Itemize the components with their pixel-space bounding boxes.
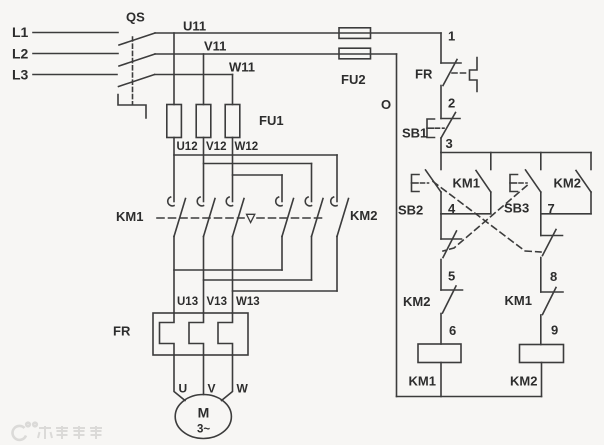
svg-text:KM2: KM2	[403, 294, 430, 309]
svg-text:M: M	[198, 405, 210, 421]
svg-text:SB3: SB3	[504, 201, 529, 216]
svg-text:FR: FR	[415, 67, 433, 82]
svg-text:3~: 3~	[197, 424, 210, 436]
svg-text:O: O	[381, 97, 391, 112]
svg-text:V: V	[208, 382, 216, 396]
svg-text:6: 6	[449, 323, 456, 338]
svg-text:FR: FR	[113, 324, 131, 339]
svg-text:4: 4	[448, 201, 456, 216]
svg-text:W: W	[237, 382, 249, 396]
svg-text:1: 1	[448, 29, 455, 44]
svg-text:W11: W11	[229, 60, 255, 75]
svg-text:KM2: KM2	[554, 176, 581, 191]
svg-text:3: 3	[446, 136, 453, 151]
svg-text:QS: QS	[126, 10, 145, 25]
svg-text:FU1: FU1	[259, 113, 284, 128]
svg-text:2: 2	[448, 96, 455, 111]
svg-text:U11: U11	[183, 19, 206, 34]
svg-text:SB1: SB1	[402, 126, 427, 141]
svg-text:5: 5	[448, 269, 455, 284]
svg-text:L2: L2	[12, 46, 29, 62]
svg-text:7: 7	[548, 201, 555, 216]
svg-text:SB2: SB2	[398, 203, 423, 218]
svg-text:KM1: KM1	[116, 209, 143, 224]
svg-text:L1: L1	[12, 24, 29, 40]
svg-text:V12: V12	[206, 141, 226, 153]
svg-text:L3: L3	[12, 67, 29, 83]
svg-text:V11: V11	[204, 39, 226, 54]
svg-text:8: 8	[550, 269, 557, 284]
svg-text:9: 9	[551, 323, 558, 338]
svg-text:U: U	[179, 382, 188, 396]
svg-text:W12: W12	[235, 141, 259, 153]
svg-text:V13: V13	[207, 296, 227, 308]
svg-text:KM2: KM2	[350, 208, 377, 223]
svg-text:KM1: KM1	[409, 374, 436, 389]
svg-text:W13: W13	[236, 296, 260, 308]
svg-text:U12: U12	[177, 141, 198, 153]
svg-text:KM1: KM1	[453, 176, 480, 191]
svg-text:KM2: KM2	[510, 374, 537, 389]
svg-text:FU2: FU2	[341, 72, 366, 87]
svg-text:KM1: KM1	[505, 293, 532, 308]
svg-text:U13: U13	[177, 296, 198, 308]
